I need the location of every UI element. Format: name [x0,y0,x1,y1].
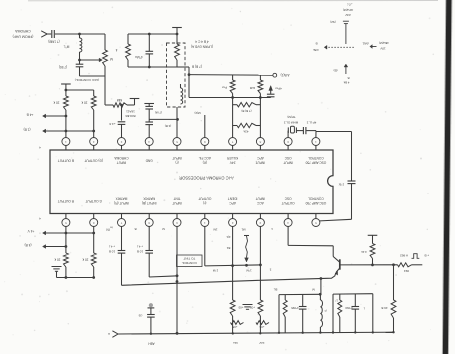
svg-text:(M)1: (M)1 [362,42,368,46]
svg-text:994: 994 [404,269,409,273]
svg-text:(FROM UHF): (FROM UHF) [13,34,34,38]
svg-text:4Pxx: 4Pxx [275,87,282,91]
svg-text:10V: 10V [380,46,385,50]
svg-text:10 k: 10 k [81,101,87,105]
svg-text:1kB: 1kB [250,86,255,90]
svg-text:in: in [110,226,113,230]
svg-text:49 B: 49 B [381,306,387,310]
svg-text:INPUT: INPUT [172,156,182,160]
svg-text:7: 7 [231,140,233,144]
svg-text:1: 1 [271,227,273,231]
svg-text:(G) OUTPUT: (G) OUTPUT [84,159,103,163]
svg-text:(4 B): (4 B) [165,124,172,128]
svg-text:IN: IN [106,228,110,232]
svg-text:+05: +05 [232,325,237,329]
svg-text:4Bu(M): 4Bu(M) [379,41,389,45]
svg-text:(r): (r) [175,160,178,164]
svg-text:M: M [312,288,315,292]
svg-text:1M: 1M [213,228,218,232]
svg-text:A 862: A 862 [400,253,408,257]
svg-text:4: 4 [148,140,150,144]
svg-text:1: 1 [315,140,317,144]
svg-text:A: A [108,332,110,336]
svg-text:ACC FIL: ACC FIL [198,156,210,160]
svg-text:TP(M): TP(M) [287,115,295,119]
svg-text:11e: 11e [233,341,238,345]
svg-text:+05: +05 [238,306,243,310]
svg-text:4(1: 4(1 [226,235,231,239]
svg-text:+ 4.(: + 4.( [137,245,143,249]
svg-text:(ACC CONTROL): (ACC CONTROL) [75,78,100,82]
svg-text:6: 6 [204,140,206,144]
svg-text:(7 B) B: (7 B) B [192,65,202,69]
svg-text:R OUTPUT: R OUTPUT [58,199,74,203]
svg-text:(7 B) B): (7 B) B) [241,109,251,113]
svg-text:OUTPUT: OUTPUT [198,196,211,200]
svg-text:5: 5 [176,140,178,144]
svg-text:TINT: TINT [173,196,180,200]
svg-text:⎇.(: ⎇.( [347,3,352,7]
svg-text:CONTROL: CONTROL [308,196,324,200]
svg-text:2: 2 [231,221,233,225]
svg-text:INPUT (R): INPUT (R) [114,201,129,205]
svg-text:ACC: ACC [256,201,263,205]
svg-text:B1: B1 [226,246,230,250]
svg-text:4°Mu: 4°Mu [135,55,143,59]
svg-text:CHROMA: CHROMA [15,29,31,33]
svg-text:4°095: 4°095 [291,306,299,310]
svg-text:(7 M): (7 M) [155,111,162,115]
svg-text:BL: BL [273,288,277,292]
svg-text:+4 B: +4 B [27,113,34,117]
svg-text:10 k: 10 k [54,258,60,262]
svg-text:APC: APC [256,156,263,160]
svg-text:+ 4.(: + 4.( [109,245,115,249]
svg-text:6: 6 [93,221,95,225]
svg-text:5: 5 [315,221,317,225]
svg-text:4 Bk: 4 Bk [313,48,319,52]
svg-text:CHROMA: CHROMA [114,156,129,160]
svg-text:MATRIX: MATRIX [142,196,155,200]
svg-text:CONTROL: CONTROL [181,261,196,265]
svg-text:A8H: A8H [148,341,155,345]
svg-text:(.: (. [363,306,365,310]
svg-text:OUTPUT: OUTPUT [281,201,294,205]
svg-text:3: 3 [269,268,271,272]
svg-text:OSC AMP 750: OSC AMP 750 [305,201,326,205]
svg-text:4: 4 [39,146,41,150]
svg-text:(B): (B) [334,69,338,73]
svg-text:A-IC CHROMA PROCESSOR: A-IC CHROMA PROCESSOR [179,176,234,181]
svg-text:(LPWN GVD A): (LPWN GVD A) [191,44,213,48]
svg-text:INPUT: INPUT [256,196,266,200]
svg-text:4P (L 2: 4P (L 2 [306,121,316,125]
svg-text:Pxx: Pxx [221,86,227,90]
svg-text:8: 8 [259,140,261,144]
svg-text:4.1k: 4.1k [361,250,367,254]
svg-text:+4 V: +4 V [27,229,35,233]
svg-text:+05: +05 [259,325,264,329]
svg-text:1: 1 [65,140,67,144]
svg-text:( B: ( B [139,314,143,318]
svg-text:BO1B3: BO1B3 [125,114,135,118]
svg-text:+ B: + B [424,253,429,257]
svg-text:9: 9 [287,140,289,144]
svg-text:OSC: OSC [284,156,292,160]
svg-text:(K): (K) [203,160,207,164]
svg-text:1°9(: 1°9( [339,183,345,187]
svg-text:4: 4 [115,48,117,52]
svg-text:M: M [162,227,165,231]
svg-text:7: 7 [120,221,122,225]
svg-text:3: 3 [259,221,261,225]
svg-text:10 B: 10 B [109,250,115,254]
svg-text:9: 9 [176,221,178,225]
svg-text:GND: GND [145,159,153,163]
svg-text:+05: +05 [250,306,255,310]
svg-text:(S2): (S2) [330,20,335,24]
svg-text:MM: MM [117,98,123,102]
svg-text:MATRIX: MATRIX [115,196,128,200]
svg-text:G OUTPUT: G OUTPUT [85,199,102,203]
svg-text:(7 50): (7 50) [59,65,67,69]
svg-text:10 k: 10 k [82,258,88,262]
svg-text:B: B [134,227,136,231]
svg-text:+4.8: +4.8 [109,122,115,126]
svg-text:B: B [315,42,317,46]
svg-text:IDENT: IDENT [228,196,238,200]
svg-text:4 Bk: 4 Bk [343,81,349,85]
svg-text:(1 B): (1 B) [24,128,31,132]
svg-text:CONTROL: CONTROL [308,156,324,160]
svg-text:INPUT: INPUT [117,160,127,164]
svg-text:OSC: OSC [284,196,292,200]
svg-text:10 B: 10 B [137,250,143,254]
svg-text:A B(1): A B(1) [281,73,290,77]
svg-text:M: M [110,57,113,61]
svg-text:KILLER: KILLER [226,156,238,160]
svg-text:1°: 1° [335,298,338,302]
svg-text:M1: M1 [241,227,245,231]
svg-text:(r): (r) [203,201,206,205]
svg-text:1: 1 [204,221,206,225]
svg-text:P: P [324,309,326,313]
svg-text:10 k: 10 k [53,101,59,105]
svg-text:INPUT: INPUT [283,160,293,164]
svg-text:2: 2 [93,140,95,144]
svg-text:1°M: 1°M [212,269,218,273]
svg-text:INPUT: INPUT [172,201,182,205]
svg-text:OSC AMP 750: OSC AMP 750 [305,160,326,164]
svg-text:4: 4 [39,217,41,221]
svg-text:INPUT (B): INPUT (B) [142,201,157,205]
svg-text:MHM OL 2: MHM OL 2 [283,121,298,125]
svg-text:4Pu(M): 4Pu(M) [343,8,353,12]
svg-text:M(k): M(k) [194,111,200,115]
svg-text:TO TINT: TO TINT [183,257,195,261]
svg-text:M°L: M°L [63,45,69,49]
svg-text:(4 B): (4 B) [25,243,32,247]
svg-text:(7 1MB): (7 1MB) [48,40,59,44]
svg-text:42k: 42k [243,130,248,134]
svg-text:3: 3 [120,140,122,144]
svg-text:APC: APC [229,201,236,205]
svg-text:B OUTPUT: B OUTPUT [58,159,74,163]
svg-text:1uV: 1uV [259,341,264,345]
svg-text:5: 5 [65,221,67,225]
svg-text:24V: 24V [229,160,236,164]
svg-text:16A11: 16A11 [126,110,135,114]
svg-text:8: 8 [148,221,150,225]
svg-text:24V: 24V [344,13,350,17]
svg-text:B: B [347,76,349,80]
svg-text:4: 4 [287,221,289,225]
